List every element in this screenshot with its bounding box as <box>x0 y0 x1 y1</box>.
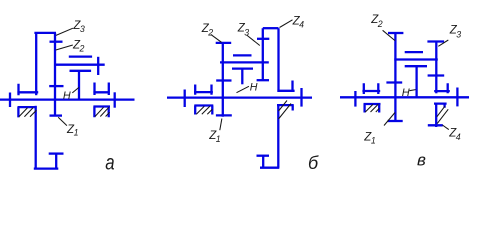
scheme v: leader z2 <box>383 30 395 40</box>
scheme b: left frame box <box>194 106 213 115</box>
scheme a: frame drop line <box>35 106 37 169</box>
scheme a: planet mount tick <box>97 57 99 75</box>
scheme a: input coupling tick <box>9 93 11 108</box>
scheme v: leader z4 <box>442 125 448 130</box>
scheme v: left frame box <box>364 104 381 113</box>
scheme a: hatching right frame <box>95 107 110 116</box>
scheme v: label z2 <box>370 14 383 29</box>
scheme v: mesh tick z1-z2 <box>386 81 402 83</box>
scheme a: planet axle <box>54 64 105 66</box>
scheme b: hatching left frame <box>196 106 212 114</box>
scheme b: carrier H stub <box>241 69 243 85</box>
scheme v: bushing bottom dash <box>405 65 427 67</box>
scheme b: sun gear z1 <box>216 98 232 117</box>
scheme v: z3 top tick <box>427 40 444 42</box>
scheme a: ring z3 lower tooth tick <box>49 152 64 154</box>
scheme b: label z2 <box>201 23 214 37</box>
scheme v: label z1 <box>363 132 376 146</box>
svg-text:3: 3 <box>456 29 461 39</box>
scheme v: output coupling tick <box>456 88 458 107</box>
svg-text:2: 2 <box>377 19 383 29</box>
scheme a: letter a <box>105 152 114 175</box>
scheme b: fixed ring bottom stub <box>262 156 264 168</box>
scheme v: hatching left frame <box>365 104 379 112</box>
scheme b: fixed ring bottom bar <box>260 167 279 169</box>
scheme a: mesh tick z1-z2 <box>49 85 63 87</box>
svg-text:3: 3 <box>244 27 249 37</box>
scheme b: shaft <box>167 96 312 98</box>
scheme a: ring gear z3 left rim leg <box>35 33 37 95</box>
scheme v: label z3 <box>449 25 462 40</box>
svg-text:H: H <box>63 90 71 102</box>
scheme b: right fork stub <box>291 81 293 92</box>
scheme a: left frame box <box>18 107 37 117</box>
scheme a: right bearing U <box>93 83 109 96</box>
svg-text:а: а <box>105 152 114 175</box>
scheme a: label H <box>63 90 71 102</box>
svg-text:2: 2 <box>79 43 85 53</box>
scheme b: leader z1 <box>220 119 222 131</box>
scheme a: left bearing U <box>17 84 38 95</box>
scheme a: mesh tick z2-z3 <box>50 41 63 43</box>
scheme b: input coupling tick <box>184 90 186 108</box>
svg-text:H: H <box>402 87 410 99</box>
scheme v: carrier H link <box>415 66 417 97</box>
scheme b: right frame box <box>277 105 294 110</box>
scheme b: z3 top mesh tick <box>257 38 269 40</box>
scheme a: sun gear z1 bottom tick <box>50 114 63 116</box>
scheme v: z2 top tick <box>388 32 403 34</box>
scheme v: bushing top dash <box>405 51 423 53</box>
scheme a: planet bushing top bar <box>69 55 92 57</box>
scheme b: label z3 <box>237 23 250 38</box>
svg-text:H: H <box>250 81 258 93</box>
scheme a: fixed ring bottom bar <box>34 167 59 169</box>
scheme a: leader z1 <box>58 117 67 125</box>
scheme v: input coupling tick <box>354 91 356 107</box>
scheme a: carrier H link <box>78 71 80 100</box>
scheme v: mesh tick z3-z4 <box>428 74 445 76</box>
scheme a: planet bushing bottom bar <box>70 70 92 72</box>
scheme b: bushing top dash <box>233 54 252 56</box>
svg-text:1: 1 <box>371 135 376 145</box>
svg-text:2: 2 <box>207 27 213 37</box>
scheme v: right bearing U <box>434 83 450 93</box>
scheme v: ring gear z4 rim with frame <box>428 104 447 127</box>
scheme b: bushing bottom dash <box>232 67 253 69</box>
scheme v: planet axle <box>394 58 438 60</box>
scheme a: right frame box <box>93 107 110 118</box>
scheme a: leader z3 <box>56 28 73 35</box>
scheme a: label z1 <box>66 124 79 138</box>
scheme v: hatching right frame (fixed ring z4) <box>437 106 448 123</box>
scheme v: letter v <box>417 150 426 169</box>
svg-text:4: 4 <box>456 132 461 142</box>
scheme b: mesh tick z1-z2 <box>216 79 231 81</box>
scheme b: letter b <box>308 153 319 173</box>
svg-text:в: в <box>417 150 426 169</box>
scheme a: label z3 <box>72 20 85 34</box>
scheme v: leader z3 <box>438 40 448 46</box>
scheme a: input shaft <box>0 98 135 100</box>
scheme b: planet gear z3 line <box>262 28 264 80</box>
scheme b: hatching right frame <box>279 101 292 120</box>
scheme a: label z2 <box>72 40 85 54</box>
scheme a: ring gear z3 top rim <box>34 32 56 34</box>
scheme a: hatching left frame <box>19 108 37 117</box>
scheme b: label z4 <box>292 16 305 30</box>
scheme v: shaft <box>340 96 469 98</box>
svg-text:3: 3 <box>80 24 85 34</box>
scheme v: label H <box>402 87 410 99</box>
scheme a: leader H <box>72 87 79 93</box>
scheme b: ring gear z4 top rim <box>263 27 279 29</box>
svg-text:1: 1 <box>74 127 79 137</box>
scheme v: left bearing U <box>362 83 380 94</box>
scheme b: z3 bottom tick <box>257 79 269 81</box>
scheme b: planet axle <box>220 61 269 63</box>
scheme a: gear line z3/z2/z1 vertical <box>54 33 56 117</box>
scheme b: right fork foot <box>277 90 294 92</box>
svg-text:б: б <box>308 153 319 173</box>
scheme b: left bearing U <box>194 85 213 95</box>
scheme a: output coupling tick <box>114 92 116 107</box>
svg-text:1: 1 <box>216 134 221 144</box>
scheme a: leader z2 <box>56 45 73 50</box>
scheme b: label H <box>250 81 258 93</box>
scheme b: frame drop line <box>277 105 279 168</box>
svg-text:4: 4 <box>299 20 304 30</box>
scheme b: leader z4 <box>280 20 293 28</box>
scheme b: planet gear z2 <box>216 43 232 99</box>
scheme v: sun z1 bottom tick <box>388 120 403 122</box>
scheme v: planet gear z3 line <box>435 42 437 94</box>
scheme b: leader z3 <box>247 35 260 46</box>
scheme b: ring z4 lower tooth tick <box>257 155 270 157</box>
scheme b: leader H <box>237 86 249 92</box>
scheme b: leader z2 <box>211 34 222 42</box>
scheme v: leader H <box>409 90 415 91</box>
scheme v: gear line z2/z1 vertical <box>394 33 396 121</box>
scheme b: ring gear z4 right leg <box>277 28 279 92</box>
scheme b: label z1 <box>208 130 221 144</box>
scheme a: fixed ring bottom stub <box>55 154 57 169</box>
scheme v: label z4 <box>448 128 461 143</box>
scheme v: leader z1 <box>384 113 395 126</box>
scheme b: output coupling tick <box>300 88 302 107</box>
